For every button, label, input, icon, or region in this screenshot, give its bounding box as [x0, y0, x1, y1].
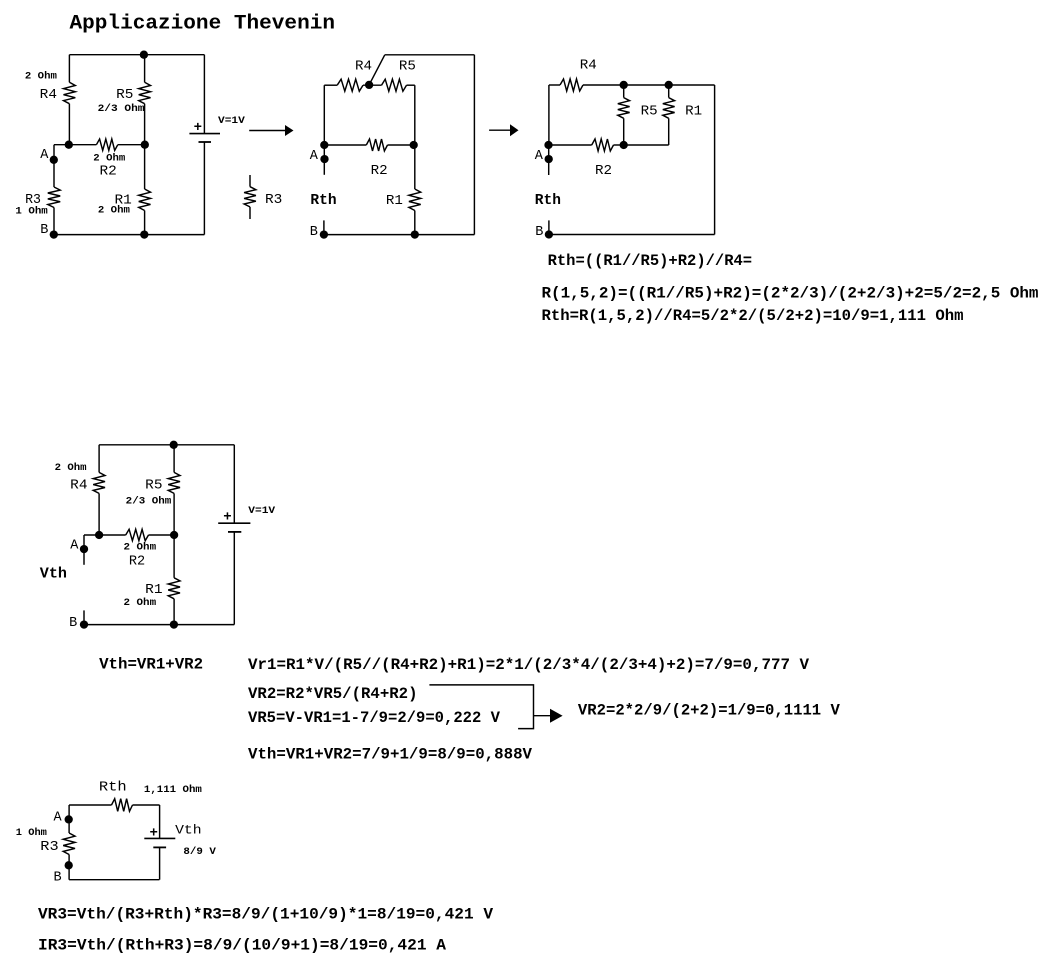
wire c1 middle bottom: [144, 211, 146, 235]
node c4 A-row left: [95, 531, 103, 539]
svg-text:+: +: [223, 510, 231, 526]
wire c4 middle lower: [173, 535, 175, 578]
wire c2 top row mid: [363, 84, 382, 86]
wire c2 B stub: [323, 220, 325, 234]
wire c3 left: [548, 85, 550, 145]
svg-text:R2: R2: [371, 164, 388, 179]
resistor R4 (circuit1): [64, 82, 76, 103]
resistor R2 (circuit1): [96, 139, 117, 150]
arrow from circuit2 to circuit3: [489, 129, 510, 131]
resistor R5 (circuit4): [168, 472, 180, 493]
resistor R1 (circuit4): [168, 578, 180, 599]
wire standalone R3 bottom lead: [249, 207, 251, 219]
wire c1 left lower: [68, 104, 70, 145]
node c2 A-row left: [320, 141, 328, 149]
svg-text:B: B: [40, 223, 48, 238]
resistor R5 (circuit2): [382, 79, 407, 91]
svg-text:IR3=Vth/(Rth+R3)=8/9/(10/9+1)=: IR3=Vth/(Rth+R3)=8/9/(10/9+1)=8/19=0,421…: [38, 937, 447, 955]
svg-text:Rth=R(1,5,2)//R4=5/2*2/(5/2+2): Rth=R(1,5,2)//R4=5/2*2/(5/2+2)=10/9=1,11…: [542, 307, 964, 325]
wire c1 middle upper: [144, 55, 146, 83]
wire c3 R5 upper lead: [623, 85, 625, 98]
wire c2 top row left: [324, 84, 337, 86]
wire c3 A-row left: [549, 144, 592, 146]
wire c1 middle lower: [144, 145, 146, 189]
node c2 bottom mid: [411, 230, 419, 238]
svg-text:R3: R3: [40, 840, 58, 855]
svg-text:B: B: [69, 616, 77, 631]
wire c5 top left: [69, 804, 111, 806]
wire c5 bottom: [69, 879, 159, 881]
svg-text:R2: R2: [100, 165, 117, 180]
resistor R5 (circuit1): [139, 82, 151, 103]
node c3 top R1: [665, 81, 673, 89]
node c4 A-row right: [170, 531, 178, 539]
wire c3 R1 to node: [624, 144, 669, 146]
wire c2 mid-right upper: [414, 85, 416, 145]
wire c4 B stub: [83, 610, 85, 624]
wire c3 top left: [549, 84, 560, 86]
resistor R2 (circuit4): [126, 529, 149, 540]
wire c2 top: [385, 54, 475, 56]
wire c2 A-row right: [388, 144, 414, 146]
resistor R4 (circuit3): [560, 79, 583, 91]
svg-text:VR3=Vth/(R3+Rth)*R3=8/9/(1+10/: VR3=Vth/(R3+Rth)*R3=8/9/(1+10/9)*1=8/19=…: [38, 906, 494, 924]
battery Vth (circuit5) positive plate: [144, 837, 175, 839]
svg-text:R5: R5: [116, 88, 133, 103]
svg-text:Rth=((R1//R5)+R2)//R4=: Rth=((R1//R5)+R2)//R4=: [548, 252, 753, 270]
svg-text:2 Ohm: 2 Ohm: [93, 152, 125, 164]
arrow to VR2 result: [534, 715, 551, 717]
wire c2 top row right: [407, 84, 415, 86]
node A (circuit2): [320, 155, 328, 163]
node c1 top junction: [140, 51, 148, 59]
svg-text:V=1V: V=1V: [248, 505, 276, 517]
wire c4 A column: [83, 535, 85, 565]
svg-text:Applicazione Thevenin: Applicazione Thevenin: [70, 12, 336, 35]
wire c4 A-row right: [149, 534, 175, 536]
svg-text:VR5=V-VR1=1-7/9=2/9=0,222 V: VR5=V-VR1=1-7/9=2/9=0,222 V: [248, 709, 501, 727]
node c1 bottom junction: [140, 230, 148, 238]
wire c2 R1 lower lead: [414, 211, 416, 235]
resistor R4 (circuit4): [93, 472, 105, 493]
resistor R3 standalone: [244, 187, 256, 207]
svg-text:A: A: [40, 148, 49, 163]
node A (circuit3): [545, 155, 553, 163]
wire c3 top right: [583, 84, 715, 86]
node c1 A-row right junction: [141, 141, 149, 149]
node A (circuit1): [50, 156, 58, 164]
svg-text:Vth: Vth: [40, 566, 67, 583]
wire c2 bottom: [324, 234, 475, 236]
wire c5 left lower: [68, 855, 70, 880]
battery V (circuit1) negative plate: [199, 141, 212, 143]
wire c2 right: [473, 55, 475, 235]
node c2 A-row right: [410, 141, 418, 149]
wire c3 A-row right: [614, 144, 624, 146]
wire c2 diagonal: [369, 55, 385, 85]
wire c1 top: [69, 54, 204, 56]
node B (circuit1): [50, 230, 58, 238]
svg-text:B: B: [310, 225, 318, 240]
svg-text:2 Ohm: 2 Ohm: [124, 597, 157, 609]
resistor R5 (circuit3): [618, 98, 630, 119]
resistor R1 (circuit1): [139, 189, 151, 211]
resistor R3 (circuit5): [63, 833, 75, 855]
wire c4 middle mid: [173, 493, 175, 535]
svg-text:R4: R4: [580, 58, 597, 73]
wire c3 R5 lower lead: [623, 118, 625, 145]
svg-text:R5: R5: [145, 479, 162, 494]
resistor Rth (circuit5): [112, 799, 133, 812]
node c3 A-row left: [544, 141, 552, 149]
node c1 A-row left junction: [65, 141, 73, 149]
svg-text:Vth=VR1+VR2=7/9+1/9=8/9=0,888V: Vth=VR1+VR2=7/9+1/9=8/9=0,888V: [248, 746, 533, 764]
wire c1 A column upper: [53, 145, 55, 187]
node c3 A-row right: [620, 141, 628, 149]
node c4 bottom junction: [170, 620, 178, 628]
battery V (circuit4) positive plate: [218, 522, 250, 524]
svg-text:2/3 Ohm: 2/3 Ohm: [98, 103, 145, 115]
svg-text:2/3 Ohm: 2/3 Ohm: [126, 496, 172, 508]
wire c1 A-row left: [54, 144, 96, 146]
wire c3 bottom: [549, 234, 715, 236]
svg-text:+: +: [194, 120, 202, 136]
wire c1 A column lower: [53, 208, 55, 235]
svg-text:B: B: [54, 871, 62, 886]
wire c2 R1 upper lead: [414, 145, 416, 189]
svg-text:A: A: [70, 539, 79, 554]
svg-text:VR2=R2*VR5/(R4+R2): VR2=R2*VR5/(R4+R2): [248, 685, 418, 703]
wire c5 top right: [133, 804, 160, 806]
svg-text:2 Ohm: 2 Ohm: [55, 462, 87, 474]
wire c5 battery bottom lead: [159, 847, 161, 879]
wire c3 R1 lower lead: [668, 118, 670, 145]
svg-text:8/9 V: 8/9 V: [183, 846, 216, 858]
svg-text:R(1,5,2)=((R1//R5)+R2)=(2*2/3): R(1,5,2)=((R1//R5)+R2)=(2*2/3)/(2+2/3)+2…: [542, 285, 1039, 303]
svg-text:Rth: Rth: [99, 780, 127, 796]
svg-text:2 Ohm: 2 Ohm: [124, 541, 157, 553]
resistor R3 (circuit1): [48, 187, 60, 208]
battery V (circuit1) positive plate: [189, 133, 220, 135]
node c3 top R5: [620, 81, 628, 89]
resistor R4 (circuit2): [337, 79, 363, 91]
wire c3 R1 upper lead: [668, 85, 670, 98]
svg-text:Vr1=R1*V/(R5//(R4+R2)+R1)=2*1/: Vr1=R1*V/(R5//(R4+R2)+R1)=2*1/(2/3*4/(2/…: [248, 656, 810, 674]
wire c4 left upper: [98, 445, 100, 473]
svg-text:A: A: [310, 149, 319, 164]
svg-text:Vth=VR1+VR2: Vth=VR1+VR2: [99, 656, 203, 674]
svg-text:R4: R4: [355, 59, 372, 74]
node B (circuit3): [545, 230, 553, 238]
svg-text:R1: R1: [145, 583, 162, 598]
wire c4 middle upper: [173, 445, 175, 473]
wire c2 A-row left: [324, 144, 366, 146]
wire c4 left lower: [98, 493, 100, 535]
resistor R1 (circuit3): [663, 98, 675, 119]
wire c4 top: [99, 444, 234, 446]
wire c5 left upper: [68, 805, 70, 833]
wire c1 battery bottom lead: [203, 142, 205, 235]
svg-text:Vth: Vth: [175, 823, 202, 838]
svg-text:R3: R3: [265, 193, 282, 208]
svg-text:A: A: [535, 149, 544, 164]
svg-text:R4: R4: [40, 88, 57, 103]
node B (circuit2): [320, 230, 328, 238]
node A (circuit5): [65, 815, 73, 823]
svg-text:VR2=2*2/9/(2+2)=1/9=0,1111 V: VR2=2*2/9/(2+2)=1/9=0,1111 V: [578, 701, 841, 719]
svg-text:Rth: Rth: [535, 192, 561, 209]
wire c4 battery bottom lead: [233, 532, 235, 625]
svg-text:R5: R5: [399, 59, 416, 74]
node B (circuit4): [80, 620, 88, 628]
battery Vth (circuit5) negative plate: [153, 846, 166, 848]
svg-text:2 Ohm: 2 Ohm: [98, 204, 130, 216]
svg-text:R5: R5: [641, 105, 658, 120]
wire c3 A stub: [548, 145, 550, 175]
wire c1 bottom: [54, 234, 205, 236]
svg-text:V=1V: V=1V: [218, 115, 246, 127]
resistor R2 (circuit3): [592, 139, 614, 151]
wire c1 battery top lead: [203, 55, 205, 134]
svg-text:R4: R4: [70, 479, 87, 494]
wire c5 battery top lead: [159, 805, 161, 838]
node A (circuit4): [80, 545, 88, 553]
node B (circuit5): [65, 861, 73, 869]
node c4 top junction: [170, 441, 178, 449]
wire c4 middle bottom: [173, 599, 175, 625]
svg-text:1,111 Ohm: 1,111 Ohm: [144, 784, 202, 796]
wire standalone R3 top lead: [249, 175, 251, 187]
svg-text:1 Ohm: 1 Ohm: [16, 827, 47, 839]
wire c4 battery top lead: [233, 445, 235, 523]
resistor R2 (circuit2): [366, 139, 387, 151]
wire c1 left upper: [68, 55, 70, 83]
svg-text:+: +: [150, 825, 158, 841]
wire c4 bottom: [84, 624, 234, 626]
wire c2 A stub: [323, 145, 325, 175]
svg-text:A: A: [54, 811, 63, 826]
wire c4 A-row left: [84, 534, 126, 536]
wire c3 B stub: [548, 220, 550, 234]
svg-text:2 Ohm: 2 Ohm: [25, 71, 57, 83]
svg-text:1 Ohm: 1 Ohm: [15, 206, 47, 218]
wire c3 right: [714, 85, 716, 235]
svg-text:R2: R2: [129, 555, 145, 570]
wire c2 left: [323, 85, 325, 145]
arrow from circuit1 to circuit2: [249, 130, 285, 132]
wire c1 middle mid: [144, 104, 146, 145]
battery V (circuit4) negative plate: [228, 531, 241, 533]
resistor R1 (circuit2): [409, 189, 421, 211]
svg-text:R1: R1: [386, 194, 403, 209]
svg-text:B: B: [535, 225, 543, 240]
svg-text:R1: R1: [685, 105, 702, 120]
wire c1 A-row right: [118, 144, 145, 146]
node c2 between R4 R5: [365, 81, 373, 89]
svg-text:R2: R2: [595, 164, 612, 179]
svg-text:Rth: Rth: [310, 192, 336, 209]
bracket joining VR2 and VR5 equations: [429, 685, 533, 729]
